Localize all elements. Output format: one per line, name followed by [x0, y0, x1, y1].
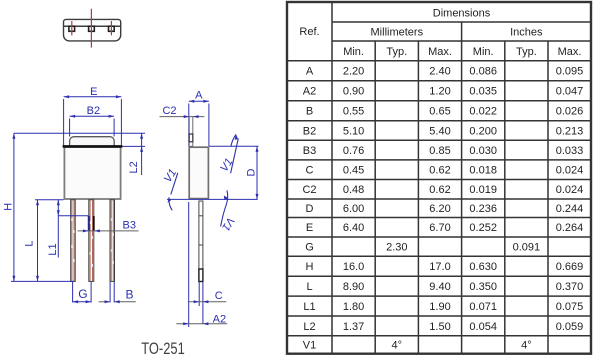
svg-text:0.033: 0.033	[556, 145, 584, 157]
svg-text:V1: V1	[303, 340, 316, 352]
front view cap	[70, 137, 115, 147]
svg-text:0.030: 0.030	[469, 145, 497, 157]
svg-text:L2: L2	[303, 321, 315, 333]
front lead 2	[89, 200, 94, 282]
svg-text:C2: C2	[302, 184, 316, 196]
top view centerline lead 1	[71, 21, 73, 35]
svg-text:A2: A2	[303, 86, 316, 98]
L1 bottom extension line	[58, 216, 88, 231]
dimension B2	[70, 115, 115, 137]
svg-text:0.091: 0.091	[513, 242, 541, 254]
svg-text:V1: V1	[219, 215, 236, 233]
svg-text:0.264: 0.264	[556, 222, 584, 234]
svg-text:9.40: 9.40	[429, 281, 450, 293]
svg-text:0.022: 0.022	[469, 106, 497, 118]
top view centerline lead 2 (long)	[90, 9, 92, 48]
svg-text:5.40: 5.40	[429, 125, 450, 137]
svg-text:H: H	[306, 261, 314, 273]
angle V1 left	[162, 167, 179, 210]
svg-text:6.20: 6.20	[429, 203, 450, 215]
svg-text:8.90: 8.90	[343, 281, 364, 293]
front view body top edge	[63, 145, 123, 148]
dimension C2	[160, 115, 205, 118]
A2 left extension line	[188, 202, 190, 327]
side bottom extension line	[167, 198, 258, 200]
svg-text:1.90: 1.90	[429, 301, 450, 313]
svg-text:D: D	[306, 203, 314, 215]
svg-text:2.30: 2.30	[386, 242, 407, 254]
svg-text:0.65: 0.65	[429, 106, 450, 118]
svg-text:0.90: 0.90	[343, 86, 364, 98]
svg-text:C: C	[215, 290, 223, 302]
svg-text:0.024: 0.024	[556, 184, 584, 196]
side view tab	[189, 117, 193, 147]
svg-text:B2: B2	[87, 105, 100, 117]
svg-text:0.48: 0.48	[343, 184, 364, 196]
svg-text:0.200: 0.200	[469, 125, 497, 137]
front lead 3	[110, 200, 115, 282]
svg-text:L1: L1	[303, 301, 315, 313]
svg-text:6.00: 6.00	[343, 203, 364, 215]
dimension D	[256, 146, 259, 199]
dimension E	[64, 95, 122, 146]
dimension L1	[57, 200, 60, 258]
svg-text:4°: 4°	[521, 340, 532, 352]
svg-text:0.086: 0.086	[469, 66, 497, 78]
svg-text:6.40: 6.40	[343, 222, 364, 234]
svg-text:0.018: 0.018	[469, 165, 497, 177]
dimension C	[188, 300, 227, 303]
svg-text:2.20: 2.20	[343, 66, 364, 78]
lead 2 measured edge marks	[89, 216, 94, 231]
dimension B	[99, 282, 136, 303]
svg-text:1.50: 1.50	[429, 321, 450, 333]
table header	[299, 7, 581, 58]
svg-text:Max.: Max.	[428, 46, 452, 58]
svg-text:0.095: 0.095	[556, 66, 584, 78]
svg-text:1.20: 1.20	[429, 86, 450, 98]
svg-text:0.350: 0.350	[469, 281, 497, 293]
bottom extension line	[11, 280, 74, 282]
svg-text:B3: B3	[303, 145, 316, 157]
table grid	[287, 2, 591, 354]
svg-text:G: G	[78, 287, 87, 301]
svg-text:A2: A2	[213, 314, 226, 326]
dimension L2	[140, 133, 143, 175]
table data rows	[302, 66, 583, 352]
side view tab crimp box	[189, 134, 193, 142]
side view lead	[199, 201, 203, 282]
svg-text:C: C	[306, 165, 314, 177]
top view body outline	[63, 19, 121, 41]
front view body	[64, 147, 120, 199]
svg-text:H: H	[3, 203, 15, 211]
svg-text:16.0: 16.0	[343, 261, 364, 273]
svg-text:TO-251: TO-251	[141, 340, 185, 358]
svg-text:0.236: 0.236	[469, 203, 497, 215]
svg-text:Min.: Min.	[343, 46, 364, 58]
svg-text:0.026: 0.026	[556, 106, 584, 118]
svg-text:D: D	[246, 168, 258, 176]
svg-text:0.45: 0.45	[343, 165, 364, 177]
dimension B3	[78, 229, 139, 232]
D top extension line	[209, 145, 258, 147]
svg-text:V1: V1	[162, 167, 179, 185]
top view lead 1 notch	[69, 26, 75, 31]
dimension L	[36, 200, 39, 282]
svg-text:0.55: 0.55	[343, 106, 364, 118]
svg-text:E: E	[306, 222, 313, 234]
svg-text:0.370: 0.370	[556, 281, 584, 293]
svg-text:Min.: Min.	[473, 46, 494, 58]
svg-text:B: B	[306, 106, 313, 118]
svg-text:B3: B3	[123, 219, 136, 231]
dimension A2	[176, 322, 227, 325]
svg-text:Typ.: Typ.	[516, 46, 537, 58]
svg-text:0.019: 0.019	[469, 184, 497, 196]
svg-text:Max.: Max.	[558, 46, 582, 58]
svg-text:B: B	[125, 288, 133, 302]
svg-text:0.630: 0.630	[469, 261, 497, 273]
svg-text:Typ.: Typ.	[386, 46, 407, 58]
svg-text:0.244: 0.244	[556, 203, 584, 215]
dimension G	[73, 282, 92, 303]
svg-text:2.40: 2.40	[429, 66, 450, 78]
H top extension line	[14, 132, 145, 134]
svg-text:0.035: 0.035	[469, 86, 497, 98]
svg-text:Inches: Inches	[510, 27, 543, 39]
top view centerline lead 3	[110, 21, 112, 35]
svg-text:0.76: 0.76	[343, 145, 364, 157]
svg-text:L1: L1	[47, 243, 59, 255]
svg-text:E: E	[90, 86, 97, 98]
svg-text:C2: C2	[162, 105, 176, 117]
lead surface dashes	[72, 218, 113, 267]
svg-text:0.024: 0.024	[556, 165, 584, 177]
angle V1 bottom right	[219, 190, 236, 232]
svg-text:A: A	[306, 66, 314, 78]
dimension H	[12, 133, 15, 281]
C extension lines	[199, 282, 203, 325]
svg-text:0.62: 0.62	[429, 184, 450, 196]
L2 top reference extension line	[122, 145, 145, 147]
svg-text:5.10: 5.10	[343, 125, 364, 137]
svg-text:0.054: 0.054	[469, 321, 497, 333]
svg-text:6.70: 6.70	[429, 222, 450, 234]
svg-text:17.0: 17.0	[429, 261, 450, 273]
svg-text:1.80: 1.80	[343, 301, 364, 313]
top view lead 3 notch	[109, 26, 115, 31]
front lead 1	[71, 200, 76, 282]
svg-text:0.075: 0.075	[556, 301, 584, 313]
L top extension line	[35, 199, 64, 201]
svg-text:L2: L2	[128, 161, 140, 173]
svg-text:Ref.: Ref.	[299, 26, 319, 38]
svg-text:V1: V1	[218, 156, 235, 174]
svg-text:4°: 4°	[392, 340, 403, 352]
svg-text:0.62: 0.62	[429, 165, 450, 177]
angle V1 top right	[218, 134, 238, 174]
svg-text:Millimeters: Millimeters	[371, 27, 424, 39]
dimension A	[189, 100, 209, 146]
svg-text:0.85: 0.85	[429, 145, 450, 157]
svg-text:0.669: 0.669	[556, 261, 584, 273]
svg-text:B2: B2	[303, 125, 316, 137]
svg-text:0.071: 0.071	[469, 301, 497, 313]
svg-text:0.059: 0.059	[556, 321, 584, 333]
top view lead 2 notch	[89, 26, 95, 31]
svg-text:L: L	[24, 241, 36, 247]
svg-text:0.047: 0.047	[556, 86, 584, 98]
svg-text:0.252: 0.252	[469, 222, 497, 234]
svg-text:L: L	[306, 281, 312, 293]
svg-text:1.37: 1.37	[343, 321, 364, 333]
svg-text:0.213: 0.213	[556, 125, 584, 137]
svg-text:Dimensions: Dimensions	[433, 7, 491, 19]
side view body	[189, 147, 208, 198]
svg-text:G: G	[305, 242, 314, 254]
svg-text:A: A	[195, 90, 203, 102]
